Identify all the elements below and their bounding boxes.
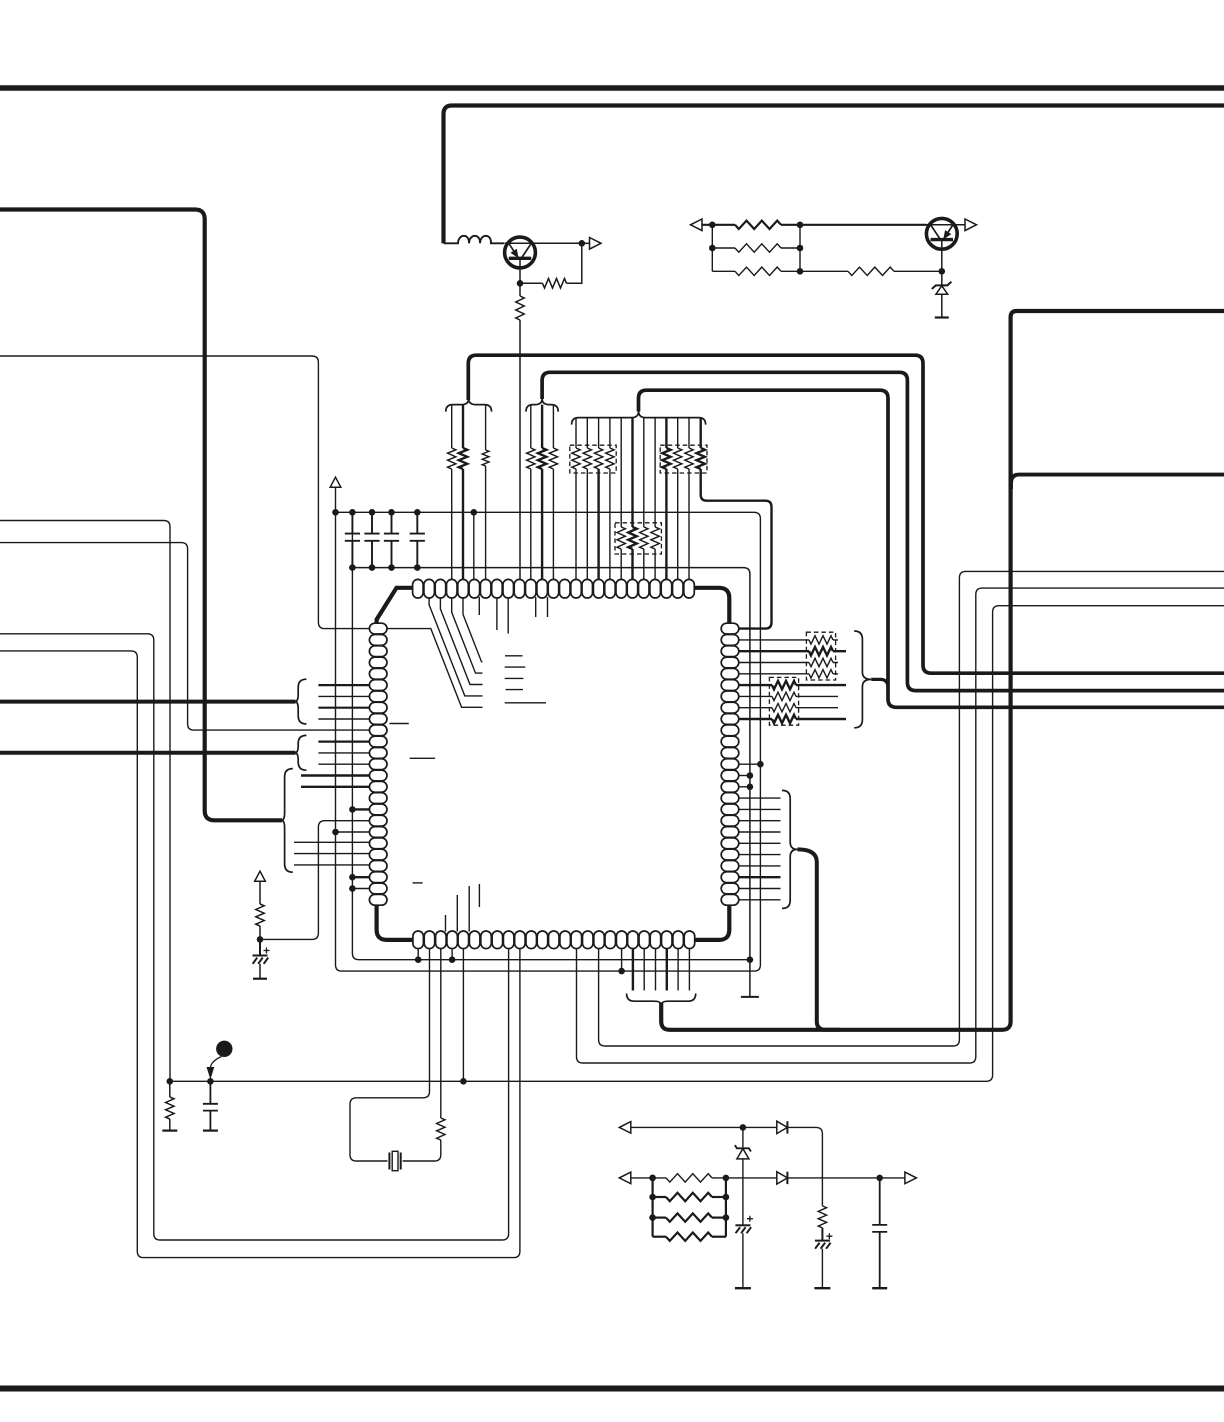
wire pin R2 <box>739 639 839 641</box>
resistor row3 <box>712 270 735 272</box>
ground bar <box>872 1287 887 1289</box>
resistor array RN2 line x677.7 <box>677 418 679 448</box>
wire row1 <box>631 1126 777 1128</box>
wire pin T6 to rail512 <box>473 512 475 580</box>
IC internal tick marks <box>505 656 546 703</box>
resistor array RN2 line x689.0 <box>688 418 690 448</box>
wire pin stubs B20-B25 <box>632 948 634 990</box>
node <box>709 222 716 229</box>
capacitor decoupling x352.4 <box>345 512 360 567</box>
resistor line R3 thick <box>739 650 847 652</box>
wire pin R14 stub <box>739 775 750 777</box>
connector arrow right of Q2 <box>965 219 977 231</box>
wire pin R15 stub <box>739 786 750 788</box>
resistor array RN3 line x655.1 <box>654 418 656 527</box>
wire thick right mid branch <box>1011 475 1224 489</box>
resistor bank row1 <box>666 1174 712 1182</box>
wire pin L13 <box>318 763 370 765</box>
IC U1 left pin column <box>369 623 387 634</box>
node Q2 emitter <box>939 268 946 275</box>
wire nested 2 (pin B15 loop) <box>577 588 1224 1063</box>
brace group T1 <box>446 399 492 412</box>
wire thick to left brace 2 <box>0 751 296 755</box>
resistor array RN3 line x643.8 <box>643 418 645 527</box>
wire pin L23 stub <box>352 876 370 878</box>
resistor-network dashed box RN3 <box>615 523 661 554</box>
wire pin L8 <box>318 707 370 709</box>
ground bar <box>935 316 949 318</box>
wire pin L7 <box>318 695 370 697</box>
capacitor electrolytic VT2 <box>264 948 270 954</box>
resistor array RB right lower <box>772 681 796 689</box>
wire pin R4 <box>739 662 839 664</box>
IC internal stubs top <box>479 597 547 634</box>
node rail568 junctions <box>349 564 356 571</box>
wire nested 3 (rail 1081) <box>170 606 1224 1082</box>
connector arrow row1 left <box>619 1122 631 1134</box>
resistor line R9 thick <box>739 718 847 720</box>
node <box>876 1175 883 1182</box>
ground bar <box>203 1129 218 1131</box>
connector arrow row2 right <box>905 1172 917 1184</box>
diode D2 <box>777 1172 788 1184</box>
resistor dropper <box>818 1206 826 1228</box>
inductor L1 <box>444 236 505 244</box>
resistor feeder to pin R1 <box>700 418 702 448</box>
wire pin L14 thick <box>301 774 370 776</box>
resistor array RN1 line x576.0 <box>575 418 577 448</box>
resistor array RN3 line x621.2 <box>620 418 622 527</box>
capacitor to ground (left) <box>203 1081 218 1130</box>
wire pin L20 <box>294 841 370 843</box>
wire pin B1 stub <box>417 948 419 960</box>
resistor-network dashed box RB <box>769 677 798 725</box>
resistor line T11 <box>530 405 532 448</box>
resistor row1 <box>735 221 781 229</box>
wire pin L6 <box>318 684 370 686</box>
wire A thick to left brace 3 <box>0 210 282 821</box>
wire pin L17 stub <box>352 808 370 810</box>
capacitor decoupling x391.5 <box>384 512 399 567</box>
wire right vertical <box>799 225 801 271</box>
wire pin L9 <box>318 718 370 720</box>
resistor line T13 <box>552 405 554 448</box>
capacitor decoupling x372.0 <box>364 512 379 567</box>
wire pin B3 <box>440 948 442 1118</box>
resistor row2 <box>712 247 735 249</box>
brace group T3 (wide) <box>572 411 706 424</box>
connector arrow row2 left <box>619 1172 631 1184</box>
brace left group 2 <box>295 735 306 770</box>
node <box>797 245 804 252</box>
resistor bank row4 <box>653 1236 666 1238</box>
crystal X1 <box>389 1153 400 1170</box>
wire pin R8 <box>739 707 839 709</box>
wire loop pin B9 <box>0 634 509 1240</box>
capacitor electrolytic C-A <box>747 1216 753 1222</box>
wire pin L21 <box>294 853 370 855</box>
resistor array RN1 line x598.6 <box>598 418 600 448</box>
resistor bank row2 <box>653 1196 666 1198</box>
resistor-network dashed box RN2 <box>660 445 707 473</box>
connector arrow right of Q1 <box>582 242 590 244</box>
wire W2 brace-T2 stem to right edge y690 <box>542 372 1224 690</box>
resistor line T5 thick <box>462 405 464 448</box>
IC U1 body outline <box>377 588 730 940</box>
node <box>649 1175 656 1182</box>
IC internal fan from top pins <box>370 629 483 708</box>
resistor line T4 <box>451 405 453 448</box>
node rail512 junctions <box>332 509 339 516</box>
test point black dot <box>216 1041 232 1057</box>
wire pin L11 <box>318 740 370 742</box>
transistor Q2 <box>926 218 957 249</box>
node rail1081 junctions <box>167 1078 174 1085</box>
wire pin L18 to mid RC node <box>260 821 370 940</box>
brace left group 3 (tall) <box>281 769 292 873</box>
resistor Q1 emitter <box>519 283 521 296</box>
capacitor decoupling x417.3 <box>410 512 425 567</box>
wire pin L15 thick <box>301 786 370 788</box>
resistor VT2 <box>259 881 261 904</box>
diode D1 <box>777 1121 788 1133</box>
wire base row <box>702 224 735 226</box>
wire pin stubs R16-R25 <box>739 797 781 799</box>
node <box>797 268 804 275</box>
wire W3 brace-T3 stem to right edge y707 <box>639 390 1224 707</box>
wire nested 1 (pin B17 loop) <box>599 571 1224 1046</box>
wire thick top feed to right edge <box>444 106 1224 244</box>
page bottom border <box>0 1386 1224 1392</box>
node VT2 <box>257 936 264 943</box>
node <box>709 245 716 252</box>
wire rail512/rail971 loop <box>336 487 761 971</box>
ground bar VT2 <box>253 978 267 980</box>
wire left vertical <box>711 225 713 271</box>
wire row2 <box>631 1177 666 1179</box>
resistor feedback Q1 <box>520 282 543 284</box>
node bank junctions <box>649 1175 656 1182</box>
ground bar <box>162 1129 177 1131</box>
wire pin L24 stub <box>352 888 370 890</box>
zener diode D-Z <box>941 271 943 285</box>
resistor bank frame <box>651 1178 653 1237</box>
node Q1 emitter <box>517 280 524 287</box>
wire Q1 to chip pin T10 <box>519 320 521 581</box>
resistor line R6 thick <box>739 684 847 686</box>
power triangle VT2 <box>255 871 266 881</box>
node rail971 junction pin B19 <box>618 968 625 975</box>
leader arrow from dot <box>210 1057 221 1069</box>
resistor line T7 (small) <box>485 405 487 450</box>
node Q1 collector <box>579 240 586 247</box>
wire rail959 with left riser x352 <box>352 512 750 959</box>
wire pin L19 stub <box>336 831 371 833</box>
wire to RC filter <box>0 521 170 1082</box>
wire loop pin B10 <box>0 651 520 1258</box>
wire to dropper resistor <box>787 1127 822 1206</box>
resistor array RN1 line x609.9 <box>609 418 611 448</box>
resistor bank row3 <box>653 1216 666 1218</box>
IC internal stubs bottom <box>446 884 480 932</box>
resistor line T12 thick <box>541 405 543 448</box>
brace left group 1 <box>295 679 306 724</box>
wire to pin L10 <box>0 543 370 731</box>
wire pin L22 <box>294 864 370 866</box>
ground bar right drop <box>741 996 759 998</box>
node <box>797 222 804 229</box>
wire pin R13 stub <box>739 763 761 765</box>
IC U1 right pin column <box>721 623 739 634</box>
wire hook right brace 1 into W3 <box>871 679 888 687</box>
wire thick bus: bottom brace stem to top-right edge <box>661 311 1224 1030</box>
resistor-network dashed box RA <box>806 632 835 680</box>
wire pin B19 stub <box>621 948 623 971</box>
wire thick from right brace hook <box>798 849 841 1029</box>
resistor array RN2 line x666.4 <box>665 418 667 448</box>
resistor-network dashed box RN1 <box>570 445 616 473</box>
wire rail568 + right drop to ground bar <box>352 568 750 997</box>
power triangle VT1 <box>330 477 341 487</box>
ground bar <box>735 1287 751 1289</box>
wire pin B2 to crystal <box>350 948 430 1161</box>
IC U1 top pin row <box>413 579 424 598</box>
brace right group 1 <box>854 631 871 728</box>
zener D3 <box>742 1127 744 1148</box>
connector arrow left input <box>691 219 703 231</box>
resistor array RN1 line x587.3 <box>586 418 588 448</box>
ground bar <box>814 1287 830 1289</box>
wire pin B5 to rail1081 <box>462 948 464 1081</box>
capacitor electrolytic C-B <box>826 1233 832 1239</box>
IC U1 bottom pin row <box>413 931 424 949</box>
wire B to pin L1 <box>0 356 370 629</box>
brace group T2 <box>526 399 558 412</box>
wire row2 right <box>787 1177 905 1179</box>
wire pin B4 stub <box>451 948 453 960</box>
resistor to ground (left) <box>169 1081 171 1097</box>
resistor series to Q2 base <box>800 270 848 272</box>
resistor array RA right top <box>809 636 833 644</box>
wire pin L12 <box>318 752 370 754</box>
capacitor output C-C <box>872 1178 887 1288</box>
brace right group 2 <box>782 790 798 908</box>
wire thick to left brace 1 <box>0 700 296 704</box>
resistor array RN3 line x632.5 <box>631 418 633 527</box>
transistor Q1 <box>505 237 536 268</box>
wire pin R5 <box>739 673 839 675</box>
wire pin R7 <box>739 695 839 697</box>
page top border <box>0 85 1224 91</box>
brace bottom group <box>627 994 696 1006</box>
node rail959 junctions <box>415 956 422 963</box>
node <box>740 1124 747 1131</box>
wire W1 brace-T1 stem to right edge y673 <box>468 355 1224 673</box>
resistor crystal feedback <box>403 1140 441 1161</box>
